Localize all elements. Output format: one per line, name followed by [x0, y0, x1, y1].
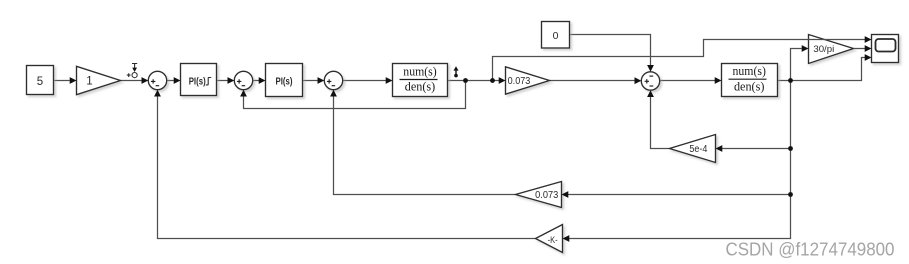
svg-text:PI(s): PI(s): [276, 76, 293, 87]
svg-text:PI(s): PI(s): [189, 76, 206, 87]
svg-text:num(s): num(s): [733, 64, 766, 78]
svg-text:0.073: 0.073: [535, 190, 558, 201]
svg-text:num(s): num(s): [403, 64, 436, 78]
svg-text:5: 5: [37, 76, 43, 88]
svg-text:-K-: -K-: [548, 235, 558, 245]
svg-text:0: 0: [553, 30, 559, 42]
svg-text:30/pi: 30/pi: [813, 44, 834, 55]
svg-text:5e-4: 5e-4: [689, 144, 707, 155]
svg-text:den(s): den(s): [734, 79, 765, 93]
svg-text:den(s): den(s): [405, 80, 436, 94]
svg-text:0.073: 0.073: [508, 76, 531, 87]
svg-text:1: 1: [86, 75, 92, 87]
svg-text:CSDN @f1274749800: CSDN @f1274749800: [726, 239, 895, 260]
